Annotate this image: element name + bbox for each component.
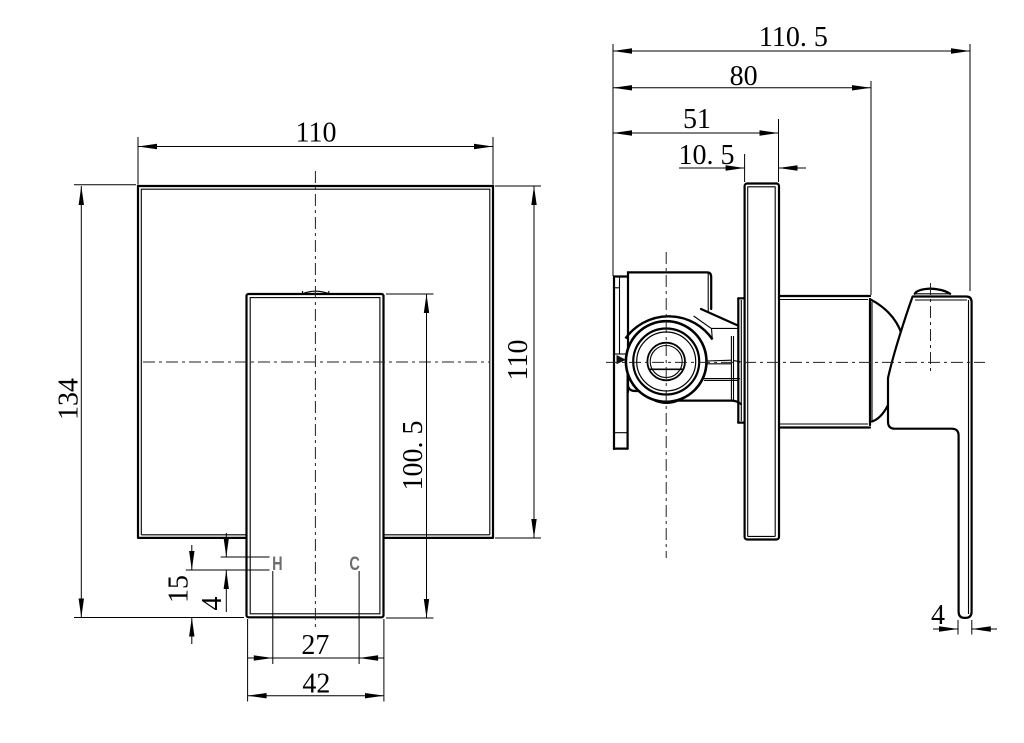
svg-text:27: 27 (301, 630, 329, 661)
handle top dome (302, 291, 331, 294)
centerline vertical (314, 171, 316, 630)
centerline horizontal (143, 361, 489, 363)
wall plate side (745, 184, 779, 540)
handle lever (888, 289, 972, 618)
centerline handle vertical (930, 283, 932, 371)
dim 10.5 (679, 140, 807, 182)
dim 100.5 (386, 294, 434, 618)
svg-text:4: 4 (197, 597, 228, 611)
dim 4 side (931, 600, 997, 635)
dim 27 (248, 571, 384, 664)
svg-text:110: 110 (296, 118, 337, 149)
dim 110.5 (613, 22, 970, 291)
dim 110 top (138, 118, 493, 185)
dim 80 (613, 61, 871, 295)
upper strut to plate (694, 274, 739, 340)
svg-text:110: 110 (503, 340, 534, 381)
svg-text:15: 15 (164, 575, 195, 603)
svg-text:42: 42 (302, 669, 330, 700)
svg-text:10. 5: 10. 5 (679, 140, 735, 171)
handle body (247, 291, 384, 617)
wall plate square inner (141, 189, 490, 535)
svg-text:100. 5: 100. 5 (398, 421, 429, 491)
dim 51 (613, 104, 779, 182)
svg-text:4: 4 (931, 600, 945, 631)
bracket wedge clip (617, 355, 627, 364)
port boss arc (626, 316, 713, 339)
mounting bracket (614, 277, 628, 450)
svg-text:80: 80 (730, 61, 758, 92)
concentric inlet circles (626, 321, 707, 403)
dim 110 right (495, 186, 541, 538)
dim 42 (248, 619, 384, 702)
svg-text:134: 134 (54, 378, 85, 420)
svg-text:C: C (349, 554, 360, 575)
centerline circle vertical (665, 252, 667, 558)
inlet port flange (731, 336, 733, 401)
valve body box (628, 272, 741, 404)
collar behind plate (738, 298, 744, 422)
svg-text:51: 51 (683, 104, 711, 135)
handle dome cap (915, 289, 951, 294)
outlet pipes (703, 360, 741, 380)
trim sleeve cylinder (779, 296, 902, 428)
dim 15 (164, 545, 270, 644)
dim 134 left (54, 185, 245, 618)
svg-text:H: H (272, 554, 283, 575)
dim 4 (197, 533, 270, 612)
centerline horizontal (606, 361, 985, 363)
svg-text:110. 5: 110. 5 (759, 22, 828, 53)
wall plate square outer (138, 186, 493, 538)
